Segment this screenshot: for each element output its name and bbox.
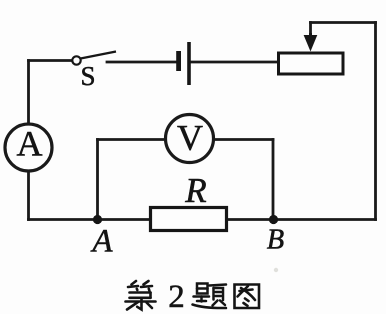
wire voltmeter branch right vertical: [272, 140, 275, 220]
battery: [176, 42, 191, 85]
svg-text:A: A: [90, 224, 113, 260]
wire voltmeter branch left vertical: [96, 140, 99, 220]
ammeter U-A: [5, 124, 52, 172]
wire right vertical: [374, 23, 377, 220]
svg-text:R: R: [184, 171, 206, 210]
svg-text:S: S: [80, 61, 95, 91]
resistor R box: [151, 171, 227, 231]
faint scan smudge: [274, 268, 278, 272]
wire voltmeter branch top-right: [214, 138, 274, 141]
wire bottom bus left (A side): [29, 218, 151, 221]
caption hanzi TU (图): [235, 285, 260, 309]
rheostat (slide resistor): [279, 33, 344, 74]
wire bottom bus right (B side): [227, 218, 376, 221]
wire left vertical upper: [27, 61, 30, 125]
wire left vertical lower: [27, 172, 30, 220]
caption hanzi DI (第): [126, 281, 156, 310]
svg-text:2: 2: [168, 279, 185, 314]
svg-text:A: A: [17, 124, 43, 164]
caption hanzi TI (题): [193, 284, 227, 309]
wire top-left horizontal: [29, 59, 72, 62]
wire battery to rheostat: [191, 61, 278, 64]
switch S: [72, 52, 116, 92]
slider arrow: [309, 33, 312, 38]
node B junction dot: [269, 215, 278, 224]
voltmeter U-V: [166, 115, 214, 163]
svg-text:B: B: [267, 225, 284, 256]
node A junction dot: [93, 215, 102, 224]
wire top-right horizontal: [311, 21, 376, 24]
wire rheostat slider stem: [309, 23, 312, 37]
wire voltmeter branch top-left: [98, 138, 167, 141]
wire switch to battery: [107, 61, 176, 64]
svg-text:V: V: [177, 118, 203, 158]
